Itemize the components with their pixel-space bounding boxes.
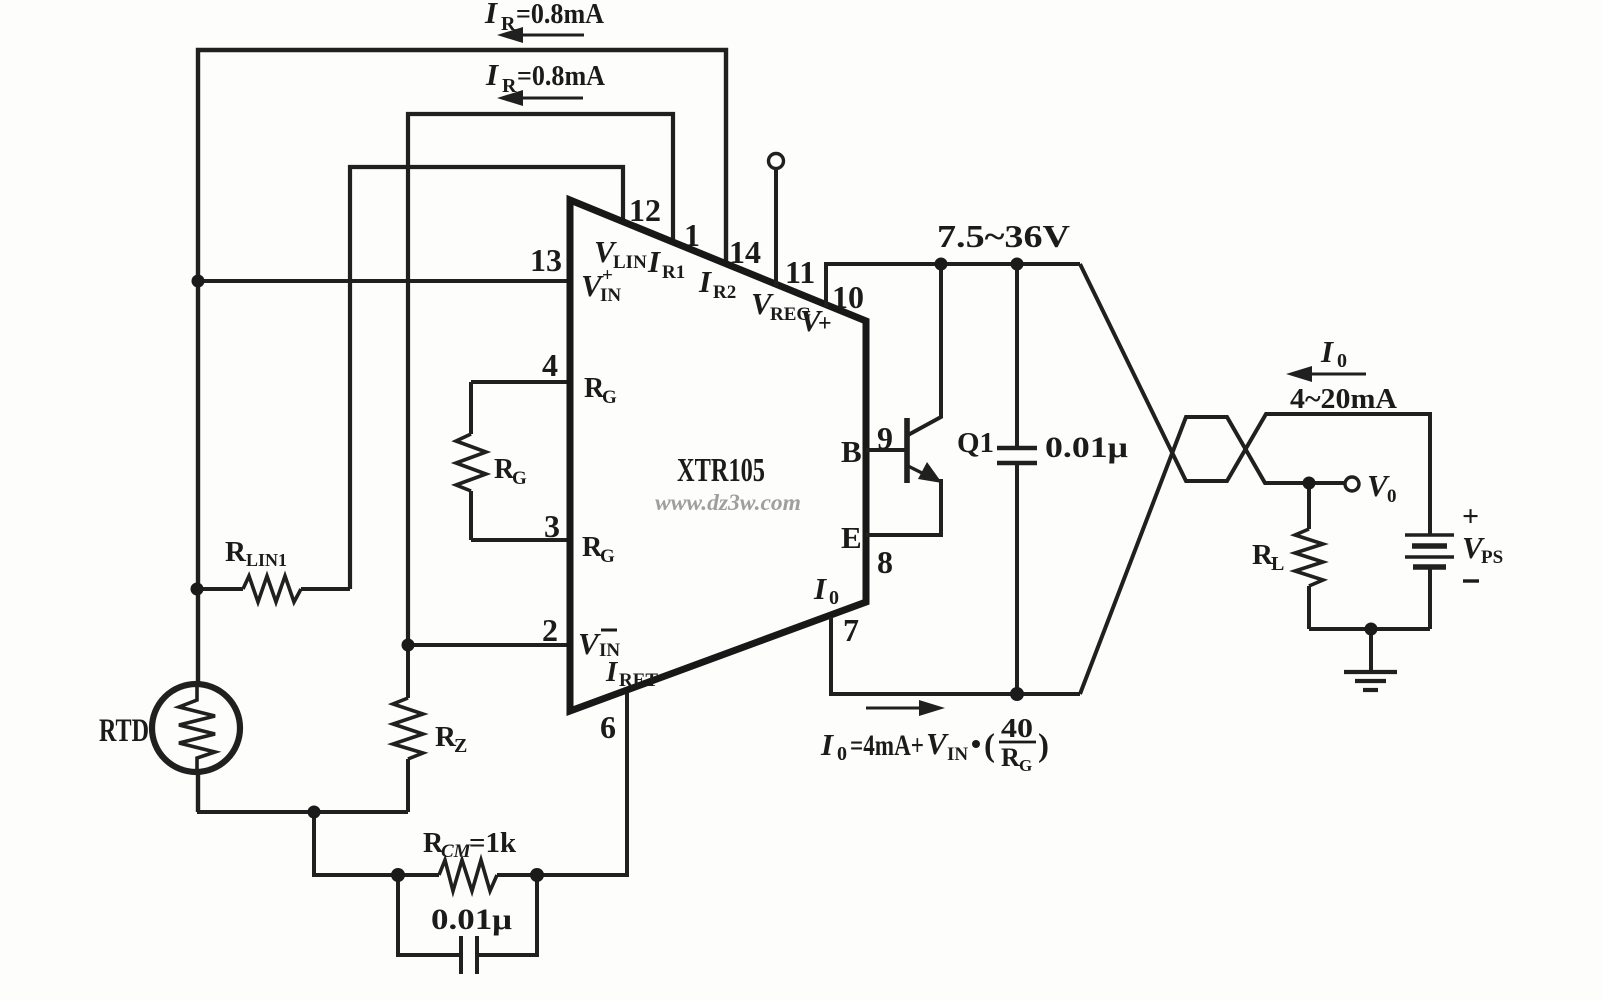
terminal: pin11 VREG [769,154,784,169]
svg-text:XTR105: XTR105 [677,452,765,489]
svg-text:0: 0 [1337,350,1347,372]
wire: RCM to pin6 [537,690,627,875]
wire: pin2 VIN- horizontal [408,643,570,647]
svg-text:8: 8 [877,544,893,580]
label battery minus [1463,579,1479,582]
wire: RCM left lead [398,873,439,877]
svg-text:12: 12 [629,192,661,228]
node: RCM left [391,868,405,882]
wire: VLIN loop pin12 down to RLIN1 [350,167,623,589]
wire: RZ top lead [406,643,410,698]
svg-text:Z: Z [454,735,467,757]
node: ground junction [1365,623,1378,636]
svg-text:+: + [1462,500,1479,533]
resistor RLIN1 [243,576,301,602]
wire: cap C2 right branch [478,875,537,955]
svg-text:10: 10 [832,279,864,315]
wire: pin4 RG stub [471,380,570,384]
svg-text:IN: IN [947,744,968,765]
svg-text:7: 7 [843,612,859,648]
wire: pin3 RG stub [471,538,570,542]
wire: ground stub [1369,629,1373,671]
svg-text:14: 14 [729,234,761,270]
wire: RZ bottom lead [406,759,410,812]
wire: RL top lead [1307,483,1311,529]
resistor RG (external) [456,434,486,491]
svg-text:RTD: RTD [99,713,149,749]
wire: twisted pair lower conductor from IO rail to VO [1080,417,1345,694]
resistor RZ [393,698,423,759]
svg-text:40: 40 [1001,713,1033,743]
svg-text:0: 0 [837,743,847,765]
svg-text:B: B [841,434,862,469]
wire: RCM right lead [497,873,537,877]
svg-text:I: I [605,656,619,688]
svg-text:): ) [1038,728,1049,764]
svg-text:R: R [502,75,517,97]
svg-text:R: R [225,536,247,568]
svg-text:I: I [698,264,712,299]
svg-text:E: E [841,520,862,555]
wire: twisted pair upper conductor from V+ rail [1080,264,1430,535]
node: pin13 tap on left rail [192,275,205,288]
wire: IR2 loop pin14 to left rail [198,50,726,812]
svg-text:4~20mA: 4~20mA [1290,383,1397,415]
svg-text:I: I [813,571,827,606]
wire: RLIN1 left lead [197,587,243,591]
transistor Q1 emitter arrowhead [918,462,942,483]
IC XTR105 outline U1 [570,200,866,711]
node: pin2/RZ junction [402,639,415,652]
svg-text:I: I [1320,334,1334,369]
svg-text:0.01μ: 0.01μ [431,903,512,936]
resistor RL [1295,529,1323,586]
svg-text:I: I [484,0,498,30]
svg-text:LIN1: LIN1 [246,550,287,570]
wire: RG resistor bottom lead [469,491,473,540]
svg-text:6: 6 [600,709,616,745]
wire: pin10 step and V+ power rail 7.5-36V [826,264,1080,307]
svg-text:11: 11 [785,254,815,290]
transistor Q1 emitter [908,466,930,477]
svg-text:www.dz3w.com: www.dz3w.com [655,490,801,515]
svg-text:+: + [818,311,832,337]
svg-text:G: G [602,387,617,408]
svg-text:RET: RET [619,670,658,691]
svg-text:V: V [578,626,601,661]
svg-text:=1k: =1k [469,827,517,859]
wire: emitter return to pin8 [866,479,941,535]
node: RCM right [530,868,544,882]
battery VPS plates [1405,533,1454,536]
capacitor C1 0.01u top lead [1015,264,1019,448]
wire: RCM left link from bottom rail [314,812,398,875]
wire: RG resistor top lead [469,382,473,434]
node: RLIN1 tap on left rail [191,583,204,596]
arrow: IR current top [518,34,584,37]
svg-text:9: 9 [877,420,893,456]
svg-text:LIN: LIN [613,252,647,273]
wire: pin13 VIN+ horizontal [198,279,570,283]
svg-text:CM: CM [441,841,472,862]
svg-text:4: 4 [542,347,558,383]
node: bottom rail to RCM [308,806,321,819]
capacitor C1 plates [997,446,1037,450]
svg-text:G: G [600,546,615,567]
svg-text:=4mA+: =4mA+ [850,729,924,762]
svg-text:2: 2 [542,612,558,648]
wire: cap C2 left branch [398,875,460,955]
ground [1344,670,1397,674]
svg-text:13: 13 [530,242,562,278]
svg-text:L: L [1271,553,1284,575]
wire: pin11 stub to terminal [774,169,778,286]
svg-text:7.5~36V: 7.5~36V [937,218,1070,254]
svg-text:+: + [602,265,613,286]
capacitor C1 bottom lead [1015,463,1019,694]
capacitor C2 0.01u plates [459,936,463,974]
svg-text:R: R [1001,743,1020,772]
junction node dots [191,258,1378,883]
wire: output loop bottom rail [1309,627,1430,631]
svg-text:IN: IN [600,285,621,306]
node: VO / RL junction [1303,477,1316,490]
transistor Q1 base bar [904,418,910,483]
wire: IR1 loop pin1 down to RZ top node [408,114,673,643]
svg-text:I: I [820,727,834,762]
svg-text:1: 1 [684,217,700,253]
svg-text:0: 0 [829,587,839,609]
svg-text:R1: R1 [662,262,685,283]
svg-text:R: R [501,13,516,35]
node: collector on V+ rail [935,258,948,271]
svg-text:=0.8mA: =0.8mA [517,60,605,92]
svg-text:PS: PS [1481,547,1503,568]
wire: RLIN1 right lead [301,587,350,591]
svg-text:R2: R2 [713,282,736,303]
arrow: IO current right [1308,373,1366,376]
wire: pin9 base stub [866,448,905,452]
svg-text:0: 0 [1387,486,1397,507]
node: C1 on IO rail [1010,687,1024,701]
wire: bottom left rail RTD to RZ [197,810,408,814]
node: C1 on V+ rail [1011,258,1024,271]
svg-text:3: 3 [544,508,560,544]
svg-text:I: I [647,244,661,279]
svg-text:I: I [485,57,499,92]
svg-text:V: V [926,726,949,761]
resistor RCM [439,860,497,891]
terminal: VO output [1345,477,1359,491]
svg-text:G: G [1019,756,1032,775]
svg-text:0.01μ: 0.01μ [1045,431,1128,464]
arrow: IO current bottom rail [866,707,922,710]
RTD circle [152,684,240,772]
svg-text:G: G [512,468,527,489]
svg-text:Q1: Q1 [957,427,994,459]
wire: battery bottom lead [1428,568,1432,629]
wire: RL bottom lead [1307,586,1311,629]
RTD internal element [179,684,215,772]
svg-text:=0.8mA: =0.8mA [516,0,604,30]
arrow: IR current second [518,97,583,100]
wire: pin7 IO stub and bottom rail [831,617,1080,694]
transistor Q1 collector [908,264,941,435]
svg-text:(: ( [984,728,995,764]
